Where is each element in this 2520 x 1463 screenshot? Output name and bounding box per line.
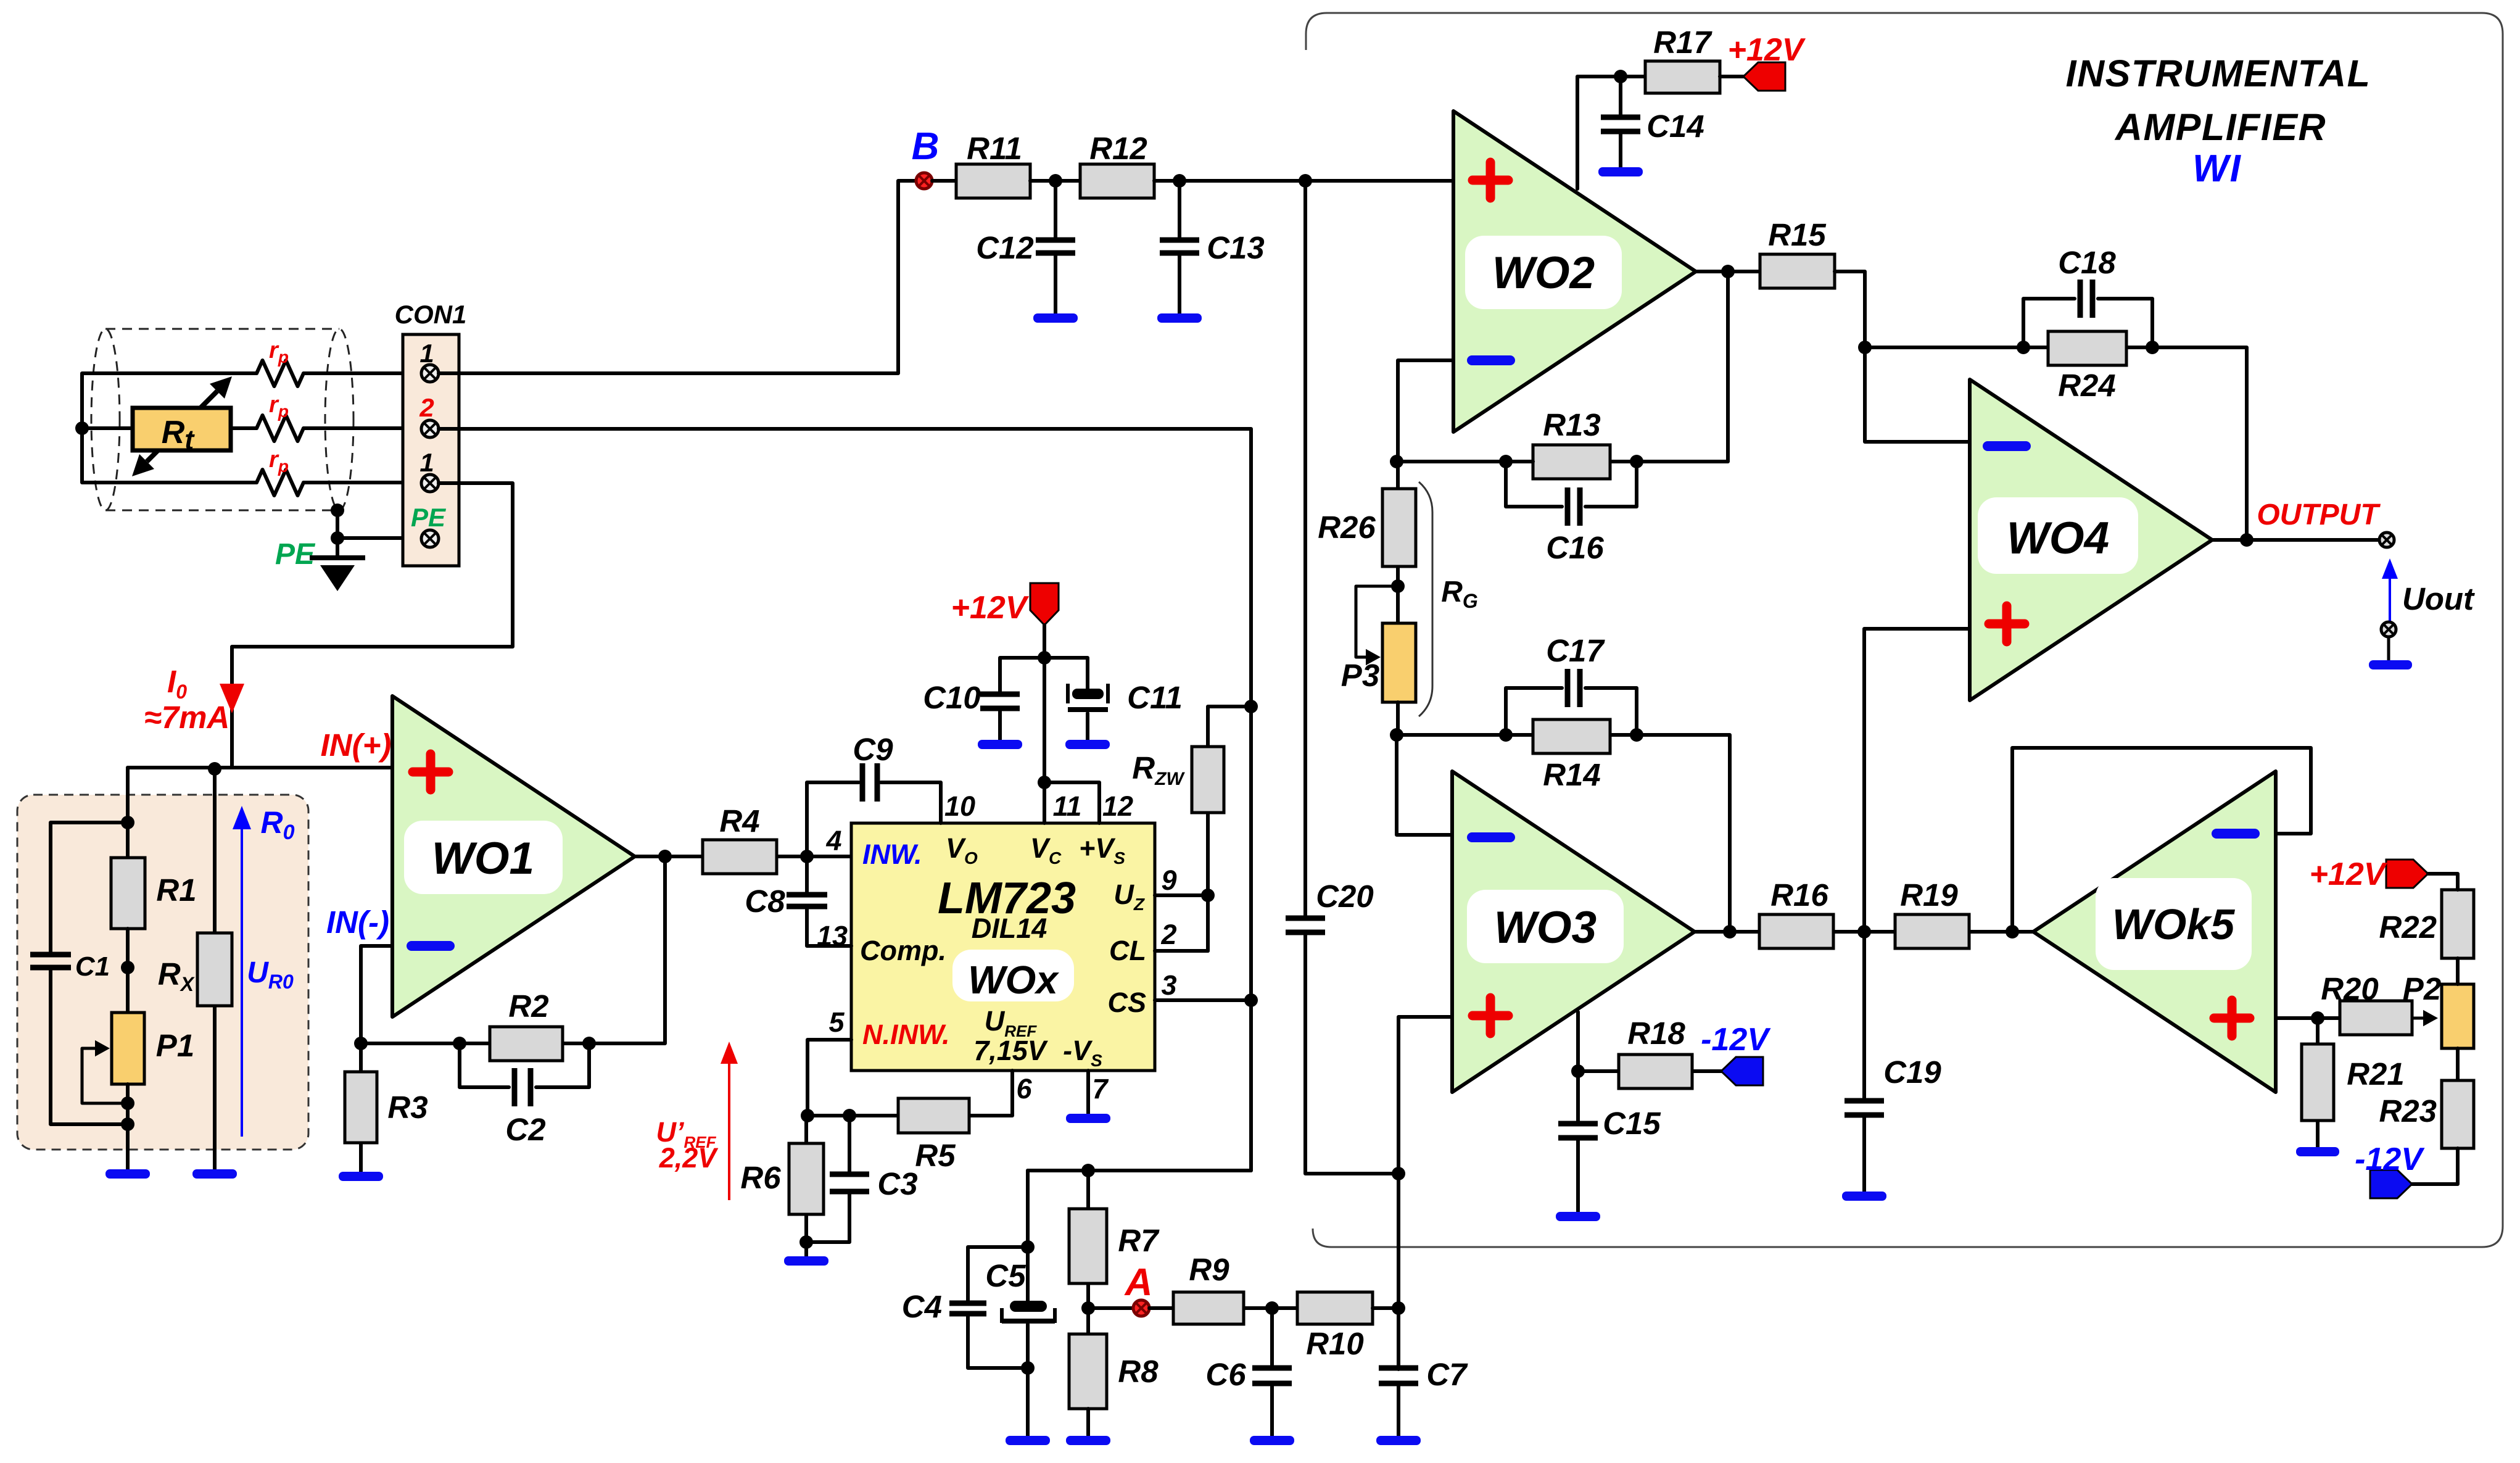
wire +12V to R22 [2428, 874, 2458, 890]
svg-text:C2: C2 [505, 1112, 545, 1147]
svg-text:INW.: INW. [862, 839, 922, 870]
IC U1 LM723 body (WOx) [851, 823, 1155, 1071]
line resistance rp (bottom) [257, 470, 304, 495]
junction [658, 850, 672, 863]
svg-text:PE: PE [411, 503, 447, 532]
line resistance rp (middle) [257, 415, 304, 441]
ground R21 [2296, 1147, 2339, 1156]
junction [1244, 700, 1258, 713]
resistor R6 [804, 1116, 808, 1258]
node A terminal [1133, 1300, 1149, 1316]
capacitor C10 [1000, 658, 1044, 741]
wire R11-R12 junction [1030, 179, 1080, 183]
junction [799, 1235, 813, 1249]
svg-text:C13: C13 [1207, 230, 1265, 265]
svg-text:5: 5 [828, 1006, 845, 1038]
svg-text:C12: C12 [976, 230, 1034, 265]
WO3 supply decoupling wire [1576, 1012, 1580, 1124]
wire R12 to WO2 noninverting input [1154, 179, 1453, 183]
ground C6 [1250, 1436, 1294, 1445]
svg-text:WO3: WO3 [1494, 903, 1597, 953]
ground C4/C5 [1006, 1436, 1050, 1445]
wire CON1 sense pin to current source [232, 483, 513, 768]
ground C19 [1842, 1192, 1886, 1201]
svg-text:1: 1 [419, 448, 434, 477]
svg-text:P2: P2 [2403, 971, 2441, 1006]
junction [1630, 728, 1643, 742]
svg-text:CON1: CON1 [395, 300, 467, 329]
svg-text:C8: C8 [745, 884, 785, 919]
wire pin 5 to R6 [808, 1040, 851, 1117]
wire WO1 output to LM723 pin4 [635, 855, 851, 858]
junction [354, 1037, 368, 1050]
junction [331, 504, 344, 517]
resistor R8 [1069, 1334, 1107, 1409]
svg-text:PE: PE [275, 538, 316, 571]
ground C15 [1556, 1212, 1600, 1221]
junction [1021, 1240, 1035, 1254]
svg-text:WO2: WO2 [1492, 248, 1595, 298]
instrumentation amplifier boundary box WI [1306, 13, 2503, 1247]
junction [801, 1109, 814, 1122]
capacitor C2 (parallel R2) [460, 1043, 589, 1087]
svg-text:C15: C15 [1603, 1106, 1661, 1141]
svg-text:R9: R9 [1189, 1252, 1229, 1287]
svg-text:Comp.: Comp. [860, 935, 946, 966]
junction [1244, 993, 1258, 1007]
svg-text:R19: R19 [1900, 877, 1958, 913]
resistor R13 [1533, 445, 1610, 479]
capacitor C20 [1286, 918, 1325, 932]
potentiometer P2 [2442, 984, 2474, 1048]
svg-text:≈7mA: ≈7mA [144, 700, 230, 735]
svg-text:R8: R8 [1118, 1354, 1159, 1389]
ground R1 chain [105, 1169, 150, 1179]
junction [1081, 1164, 1095, 1177]
svg-text:IN(-): IN(-) [326, 905, 389, 940]
svg-text:C1: C1 [75, 951, 110, 982]
wire P3 bottom [1396, 702, 1400, 735]
wire R13 row [1397, 460, 1533, 463]
wire WO2 feedback down [1610, 271, 1728, 462]
op-amp WO1 [392, 696, 635, 1017]
svg-text:R6: R6 [740, 1160, 781, 1195]
capacitor C7 [1397, 1383, 1400, 1437]
capacitor C15 [1576, 1138, 1580, 1213]
capacitor C9 (pin10 to pin4) [807, 782, 941, 856]
svg-text:+12V: +12V [1728, 32, 1806, 68]
junction [1857, 925, 1871, 939]
resistor R17 [1645, 61, 1720, 93]
CON1 pin 2 [421, 420, 439, 437]
svg-text:CL: CL [1109, 935, 1146, 966]
resistor R15 [1760, 254, 1835, 288]
ground C13 [1157, 313, 1202, 323]
wire WO2 output [1696, 270, 1760, 273]
capacitor C5 (electrolytic) [1026, 1171, 1030, 1437]
+12V supply tag (WO2) [1743, 62, 1785, 91]
svg-text:AMPLIFIER: AMPLIFIER [2114, 106, 2326, 148]
wire R8 to ground [1086, 1409, 1090, 1437]
resistor R22 [2442, 890, 2474, 958]
variability arrow through Rt [132, 376, 232, 476]
svg-text:A: A [1124, 1261, 1153, 1304]
resistor R11 [956, 164, 1030, 198]
label WOx [952, 950, 1074, 1001]
node B terminal [916, 173, 932, 189]
svg-text:R21: R21 [2347, 1056, 2405, 1092]
svg-text:7: 7 [1092, 1073, 1109, 1105]
resistor R5 [808, 1114, 898, 1117]
junction [1049, 174, 1062, 188]
capacitor C11 (electrolytic) [1044, 658, 1088, 741]
svg-text:6: 6 [1016, 1073, 1032, 1105]
wire shield to PE [337, 510, 422, 558]
WO2 supply decoupling wire [1577, 77, 1645, 189]
capacitor C13 [1178, 181, 1181, 315]
junction [1038, 776, 1051, 789]
svg-text:C10: C10 [923, 680, 981, 715]
resistor Rt (RTD sensor) [133, 408, 231, 450]
wire A-filter horizontal [1028, 1169, 1251, 1172]
svg-text:B: B [912, 125, 940, 168]
svg-text:2,2V: 2,2V [659, 1142, 719, 1174]
wire R15 to WO4 branch [1835, 271, 1970, 442]
svg-text:WO4: WO4 [2007, 513, 2109, 563]
title INSTRUMENTAL AMPLIFIER WI [2066, 52, 2371, 190]
capacitor C12 [1054, 181, 1057, 315]
svg-text:R5: R5 [915, 1138, 956, 1173]
ground R6 [784, 1256, 828, 1266]
junction [2240, 533, 2254, 547]
wire WOk5 feedback loop [2012, 748, 2311, 932]
junction [800, 850, 814, 863]
junction [1721, 265, 1735, 278]
resistor R1 [111, 858, 145, 929]
-12V supply tag (divider) [2370, 1170, 2412, 1198]
svg-text:C16: C16 [1546, 530, 1604, 565]
ground R3 [339, 1172, 383, 1181]
capacitor C1 branch [51, 823, 128, 1124]
svg-text:DIL14: DIL14 [972, 913, 1047, 944]
svg-text:Uout: Uout [2402, 581, 2475, 616]
svg-text:WOk5: WOk5 [2112, 900, 2235, 948]
wire R10 to C7 node [1373, 1306, 1398, 1310]
+12V supply tag (divider) [2386, 860, 2428, 888]
label I0 ~7mA [144, 664, 230, 735]
svg-text:+12V: +12V [2310, 856, 2388, 892]
wire P2-R23 [2456, 1048, 2460, 1080]
op-amp WOk5 (buffer, mirrored) [2033, 771, 2276, 1092]
junction [2311, 1011, 2324, 1025]
wire WO4 noninverting branch [1864, 629, 1970, 932]
junction [208, 762, 221, 776]
svg-text:C6: C6 [1205, 1357, 1246, 1392]
svg-text:C9: C9 [853, 732, 893, 767]
svg-text:2: 2 [419, 393, 434, 422]
wire R23 to -12V [2410, 1148, 2458, 1184]
junction [331, 531, 344, 545]
wire C20 bus from R12 node [1305, 181, 1398, 1174]
junction [121, 1117, 134, 1131]
resistor R3 [359, 1043, 363, 1172]
svg-text:R26: R26 [1318, 510, 1376, 545]
wire R22-P2 [2456, 958, 2460, 984]
wire R1 to P1 [126, 929, 130, 1013]
svg-text:WOx: WOx [968, 958, 1059, 1002]
junction [1723, 925, 1737, 939]
junction [582, 1037, 596, 1050]
capacitor C14 [1619, 77, 1622, 168]
junction [1173, 174, 1186, 188]
svg-text:INSTRUMENTAL: INSTRUMENTAL [2066, 52, 2371, 94]
svg-text:3: 3 [1161, 969, 1176, 1001]
junction [1390, 455, 1403, 468]
wire pin 6 to R5 [969, 1071, 1012, 1116]
wire sensor left bus [82, 373, 257, 483]
svg-text:CS: CS [1107, 987, 1146, 1018]
svg-text:+12V: +12V [951, 590, 1030, 626]
svg-text:R20: R20 [2321, 971, 2379, 1006]
resistor R21 [2316, 1018, 2320, 1148]
svg-text:C11: C11 [1127, 680, 1183, 715]
resistor R7 [1086, 1171, 1090, 1334]
resistor R4 [703, 840, 777, 874]
resistor R14 [1533, 719, 1610, 753]
svg-text:R14: R14 [1543, 757, 1601, 792]
OUTPUT terminal [2379, 533, 2394, 547]
resistor R12 [1080, 164, 1154, 198]
svg-text:R24: R24 [2058, 368, 2116, 403]
resistor RZW [1208, 707, 1251, 951]
resistor R18 [1578, 1069, 1724, 1073]
wire R1 chain top [126, 768, 130, 858]
ground C12 [1033, 313, 1078, 323]
CON1 pin 1 (sense) [421, 475, 439, 492]
junction [843, 1109, 856, 1122]
junction [1630, 455, 1643, 468]
svg-text:C7: C7 [1426, 1357, 1468, 1392]
junction [1392, 1301, 1405, 1315]
op-amp WO2 [1453, 111, 1696, 432]
svg-text:R11: R11 [967, 131, 1022, 166]
wire IN(+) row [128, 766, 392, 769]
ground C11 [1065, 740, 1110, 749]
CON1 pin 1 (top) [421, 365, 439, 382]
junction [1299, 174, 1312, 188]
svg-text:11: 11 [1053, 790, 1082, 822]
junction [2017, 341, 2030, 354]
wire WO3 output row [1695, 930, 2033, 934]
wire WO1 inverting input [361, 946, 392, 1043]
junction [1571, 1064, 1585, 1078]
svg-text:12: 12 [1102, 790, 1133, 822]
junction [1265, 1301, 1279, 1315]
svg-text:P1: P1 [156, 1028, 194, 1063]
svg-text:C19: C19 [1883, 1055, 1941, 1090]
svg-text:WO1: WO1 [432, 834, 534, 884]
Uout reference terminal [2381, 622, 2396, 637]
capacitor C8 (pin13 to pin4) [807, 856, 851, 946]
svg-text:4: 4 [825, 825, 841, 856]
wire pin 9 stub [1155, 893, 1208, 897]
capacitor C3 [806, 1116, 849, 1242]
resistor R26 [1396, 462, 1400, 623]
resistor R9 [1149, 1306, 1297, 1310]
line resistance rp (top) [257, 360, 304, 386]
svg-text:IN(+): IN(+) [321, 727, 392, 763]
ground RX [192, 1169, 237, 1179]
wire WOk5 noninverting input [2276, 1016, 2340, 1020]
junction [121, 961, 134, 974]
resistor R10 [1297, 1292, 1373, 1324]
junction [1614, 70, 1627, 83]
CON1 pin PE [421, 530, 439, 547]
svg-text:OUTPUT: OUTPUT [2257, 499, 2381, 531]
junction [1392, 1167, 1405, 1180]
wire WO3 inverting input [1397, 735, 1452, 835]
svg-text:R18: R18 [1627, 1016, 1685, 1051]
junction [121, 1096, 134, 1110]
current arrow I0 [220, 684, 244, 713]
ground C7 [1376, 1436, 1421, 1445]
wire CON1 pin2 to CS bus [439, 429, 1251, 1247]
ground Uout [2369, 660, 2412, 669]
svg-text:R10: R10 [1306, 1326, 1364, 1361]
capacitor C4 [968, 1247, 1028, 1368]
wire +12V to pin 11 [1043, 625, 1046, 823]
svg-text:R7: R7 [1118, 1223, 1160, 1258]
svg-text:C4: C4 [902, 1289, 942, 1324]
resistor R19 [1895, 914, 1969, 948]
junction [1038, 651, 1051, 665]
junction [1390, 728, 1403, 742]
junction [75, 421, 89, 435]
svg-text:C3: C3 [877, 1166, 917, 1201]
junction [1021, 1361, 1035, 1375]
ground C10 [978, 740, 1022, 749]
junction [1201, 889, 1215, 902]
wire R14 row [1397, 735, 1730, 932]
wire pin 2 stub [1155, 949, 1208, 953]
cable shield (dashed cylinder) [91, 329, 353, 510]
svg-text:R15: R15 [1768, 217, 1826, 252]
svg-text:N.INW.: N.INW. [862, 1019, 950, 1050]
junction [1391, 579, 1405, 593]
resistor R24 [2048, 331, 2126, 365]
junction [1499, 455, 1513, 468]
junction [1858, 341, 1872, 354]
reference arrow U'REF 2,2V [656, 1042, 738, 1200]
resistor RX [213, 769, 217, 1169]
capacitor C18 (parallel R24) [2023, 299, 2152, 347]
svg-text:7,15V: 7,15V [973, 1035, 1049, 1066]
wiper arrow into P2 [2412, 1017, 2423, 1020]
svg-text:C20: C20 [1316, 879, 1374, 914]
svg-text:C14: C14 [1646, 109, 1704, 144]
svg-text:R16: R16 [1770, 877, 1828, 913]
svg-text:1: 1 [419, 339, 434, 368]
svg-text:R12: R12 [1089, 131, 1147, 166]
ground C14 [1598, 167, 1643, 176]
svg-text:C5: C5 [985, 1258, 1026, 1293]
resistor R2 [490, 1027, 563, 1061]
wire feedback row R2 [361, 856, 665, 1043]
svg-text:R4: R4 [719, 803, 759, 839]
junction [121, 816, 134, 829]
capacitor C16 (parallel R13) [1506, 462, 1637, 507]
svg-text:R23: R23 [2379, 1093, 2437, 1129]
wire B to R11 [932, 179, 956, 183]
+12V supply tag [1030, 583, 1059, 625]
svg-text:R2: R2 [508, 988, 548, 1024]
capacitor C19 [1862, 932, 1866, 1193]
junction [453, 1037, 466, 1050]
wire pin 3 CS stub [1155, 998, 1251, 1002]
wire WO4 output [2212, 538, 2379, 542]
wire P1 bottom to ground [126, 1084, 130, 1169]
earth ground PE [310, 558, 365, 591]
-12V supply tag (WO3) [1721, 1057, 1763, 1085]
sense network box R0 (dashed) [17, 795, 308, 1150]
svg-text:R1: R1 [156, 872, 196, 908]
wire Uout terminal to ground [2387, 637, 2390, 661]
svg-text:-12V: -12V [1701, 1022, 1771, 1058]
wire R17 to +12V [1720, 75, 1746, 78]
resistor R23 [2442, 1080, 2474, 1148]
wire WO2 inverting input [1398, 360, 1453, 462]
resistor R16 [1759, 914, 1833, 948]
junction [2006, 925, 2019, 939]
wire pin 7 to ground [1086, 1071, 1090, 1115]
op-amp WO4 [1970, 379, 2212, 700]
potentiometer P1 [112, 1013, 144, 1084]
P1 wiper wire [82, 1048, 128, 1103]
capacitor C17 (parallel R14) [1506, 688, 1637, 735]
node A wire [1088, 1306, 1134, 1310]
Uout arrow [2382, 558, 2398, 622]
wire pin 12 link [1044, 782, 1099, 823]
resistor R20 [2340, 1001, 2412, 1035]
svg-text:R13: R13 [1543, 407, 1601, 442]
svg-text:C17: C17 [1546, 633, 1605, 668]
svg-text:R17: R17 [1653, 25, 1712, 60]
wire CON1 pin1 to node B [439, 181, 917, 373]
svg-text:10: 10 [944, 790, 975, 822]
gain range bracket RG [1419, 482, 1432, 716]
wire Rt to line resistances [231, 373, 422, 483]
potentiometer P3 [1382, 623, 1416, 702]
svg-text:R3: R3 [387, 1090, 428, 1125]
P3 wiper wire [1356, 586, 1398, 657]
svg-text:R22: R22 [2379, 910, 2437, 945]
svg-text:P3: P3 [1341, 658, 1379, 693]
svg-text:-12V: -12V [2355, 1142, 2425, 1177]
svg-text:2: 2 [1160, 919, 1176, 950]
connector CON1 body [403, 334, 459, 566]
junction [1499, 728, 1513, 742]
svg-text:9: 9 [1161, 864, 1176, 896]
junction [2146, 341, 2159, 354]
wire WO3 noninverting branch [1398, 1017, 1452, 1369]
label R0 with arrow [233, 805, 295, 1137]
junction [1081, 1301, 1095, 1315]
op-amp WO3 [1452, 771, 1695, 1092]
svg-text:C18: C18 [2058, 245, 2116, 280]
capacitor C6 [1270, 1308, 1274, 1437]
svg-text:WI: WI [2192, 147, 2242, 190]
wire R24 row [1865, 347, 2247, 540]
